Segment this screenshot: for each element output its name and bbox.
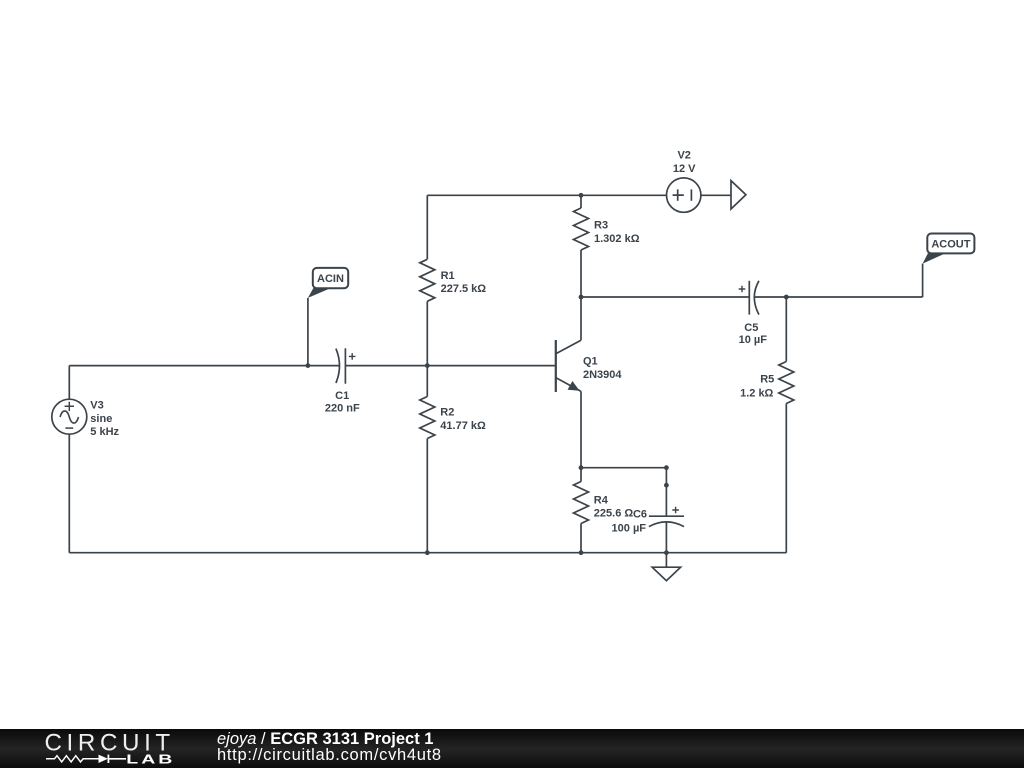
resistor R3	[574, 208, 589, 250]
node C6 terminal	[664, 483, 669, 488]
wire R3 top stub	[580, 195, 582, 208]
node base/divider junction	[425, 363, 430, 368]
node collector/C5 junction	[579, 295, 584, 300]
wire ACOUT riser	[922, 264, 924, 297]
node emitter junction	[579, 465, 584, 470]
wire V3 top stub	[68, 366, 70, 400]
flag ACOUT	[923, 253, 946, 263]
svg-text:R1: R1	[441, 270, 455, 282]
capacitor C6	[649, 515, 684, 517]
CircuitLab logo	[0, 729, 200, 768]
node bottom rail ground	[664, 550, 669, 555]
resistor R5	[779, 362, 794, 404]
logo word LAB	[126, 752, 175, 767]
svg-text:R2: R2	[440, 407, 454, 419]
node top rail R3 junction	[579, 193, 584, 198]
svg-text:C1: C1	[335, 390, 349, 402]
wire top rail (R1 top to V2)	[427, 194, 666, 196]
wire R3 bottom to collector node	[580, 250, 582, 297]
logo diode glyph	[99, 755, 108, 763]
wire collector node to C5	[581, 296, 749, 298]
svg-text:LAB: LAB	[126, 752, 175, 767]
wire R1 upper stub	[426, 195, 428, 259]
svg-text:Q1: Q1	[583, 356, 598, 368]
svg-text:41.77 kΩ: 41.77 kΩ	[440, 420, 486, 432]
svg-text:100 µF: 100 µF	[612, 522, 647, 534]
wire ACIN drop	[307, 298, 309, 366]
flag ACIN	[308, 288, 331, 298]
wire R4 lower stub	[580, 524, 582, 553]
capacitor C1	[336, 349, 340, 383]
wire input rail right (C1 to Q1 base)	[345, 365, 555, 367]
wire R5 lower stub	[785, 404, 787, 553]
svg-text:ACIN: ACIN	[317, 273, 344, 285]
output port triangle	[731, 181, 746, 209]
wire C6 bottom stub	[665, 522, 667, 553]
wire emitter drop	[580, 391, 582, 467]
svg-text:227.5 kΩ: 227.5 kΩ	[441, 283, 487, 295]
svg-text:V3: V3	[90, 399, 103, 411]
wire V3 bottom stub	[68, 434, 70, 553]
resistor R4	[574, 482, 589, 524]
svg-text:V2: V2	[677, 150, 690, 162]
voltage source V3 sine	[52, 399, 87, 434]
resistor R1	[420, 259, 435, 301]
svg-text:2N3904: 2N3904	[583, 369, 622, 381]
wire V2 to output triangle	[701, 194, 731, 196]
node ACIN junction	[306, 363, 311, 368]
wire R5 upper stub	[785, 297, 787, 362]
wire bottom rail	[69, 552, 786, 554]
svg-text:R3: R3	[594, 219, 608, 231]
capacitor C5	[748, 281, 750, 315]
wire collector riser	[580, 297, 582, 340]
svg-text:R4: R4	[594, 495, 609, 507]
transistor Q1 2N3904	[555, 340, 557, 392]
node bottom rail R4	[579, 550, 584, 555]
svg-text:10 µF: 10 µF	[739, 334, 768, 346]
svg-text:R5: R5	[760, 374, 774, 386]
svg-text:220 nF: 220 nF	[325, 403, 360, 415]
svg-text:1.2 kΩ: 1.2 kΩ	[740, 387, 773, 399]
wire R2 lower stub	[426, 439, 428, 553]
wire emitter node to C6	[581, 467, 666, 469]
svg-text:12 V: 12 V	[673, 163, 696, 175]
svg-text:1.302 kΩ: 1.302 kΩ	[594, 233, 640, 245]
svg-text:ACOUT: ACOUT	[931, 238, 970, 250]
ground	[652, 567, 680, 581]
voltage source V2 12V	[667, 178, 701, 212]
footer title	[217, 730, 433, 749]
node C6 corner	[664, 465, 669, 470]
wire C5 to ACOUT corner	[754, 296, 922, 298]
svg-text:C5: C5	[744, 322, 758, 334]
footer bar	[0, 729, 1024, 768]
node C5/R5 junction	[784, 295, 789, 300]
svg-text:5 kHz: 5 kHz	[90, 426, 119, 438]
wire C6 top stub	[665, 468, 667, 517]
wire R2 upper stub	[426, 366, 428, 397]
resistor R2	[420, 397, 435, 439]
node bottom rail R2	[425, 550, 430, 555]
footer url	[217, 746, 442, 765]
svg-text:C6: C6	[633, 509, 647, 521]
wire input rail left (V3 to C1)	[69, 365, 339, 367]
svg-text:sine: sine	[90, 413, 112, 425]
wire ground stub	[665, 553, 667, 568]
logo resistor glyph	[46, 756, 99, 762]
svg-text:225.6 Ω: 225.6 Ω	[594, 507, 634, 519]
wire R4 upper stub	[580, 468, 582, 482]
wire R1 lower stub	[426, 301, 428, 365]
